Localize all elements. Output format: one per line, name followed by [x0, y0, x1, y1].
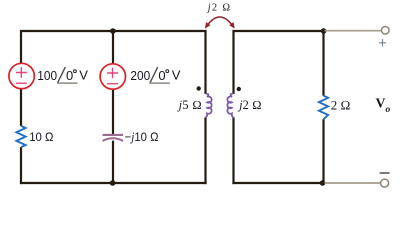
- inductor L1 (primary) coil: [206, 94, 212, 118]
- wire: primary coil bottom to bottom rail: [204, 117, 206, 184]
- svg-text:0: 0: [66, 68, 73, 83]
- svg-text:2 Ω: 2 Ω: [331, 98, 351, 113]
- voltage source V2 circle: [100, 64, 125, 89]
- node: coupling dot of L1: [197, 86, 201, 90]
- label: - polarity mark at output: [380, 172, 390, 174]
- label: V2 value 200/0° V: [130, 67, 180, 83]
- voltage source V1 minus sign: [16, 82, 27, 84]
- wire: secondary coil bottom to bottom rail: [232, 117, 234, 184]
- wire: secondary loop top rail (secondary coil top + top wire + right branch top): [234, 31, 324, 96]
- wire: middle branch top segment: [112, 30, 114, 64]
- resistor R2 zigzag: [319, 96, 328, 120]
- svg-text:j2 Ω: j2 Ω: [237, 98, 262, 112]
- wire: left loop top rail (left wire top + top wire + primary top segment): [21, 31, 206, 94]
- node: junction dot top of middle branch: [110, 28, 116, 34]
- wire: left wire between source V1 and resistor R1: [20, 89, 22, 126]
- arrowhead left of coupling arrow: [205, 22, 211, 29]
- wire: gray lead to + output terminal: [325, 30, 382, 32]
- node: junction dot bottom of resistor R2 branch: [320, 180, 326, 186]
- voltage source V1 plus sign: [16, 67, 27, 78]
- wire: gray lead to - output terminal: [325, 182, 381, 184]
- svg-text:j2 Ω: j2 Ω: [206, 3, 231, 14]
- capacitor C1 top plate: [103, 134, 123, 136]
- svg-text:200: 200: [130, 68, 150, 83]
- label: + polarity mark at output: [379, 39, 386, 46]
- svg-text:V: V: [79, 68, 88, 83]
- inductor L2 (secondary) coil: [227, 94, 233, 118]
- node: junction dot bottom of middle branch: [110, 180, 116, 186]
- wire: middle branch between source V2 and capacitor C1: [112, 89, 114, 135]
- capacitor C1 curved bottom plate: [103, 138, 123, 141]
- wire: right branch below resistor R2: [322, 119, 324, 184]
- wire: left wire below resistor R1: [20, 147, 22, 184]
- svg-text:10 Ω: 10 Ω: [29, 130, 54, 144]
- voltage source V2 minus sign: [107, 83, 118, 85]
- terminal: - output open circle: [381, 179, 389, 187]
- svg-text:j5 Ω: j5 Ω: [177, 98, 202, 112]
- svg-text:100: 100: [37, 68, 57, 83]
- voltage source V2 plus sign: [107, 68, 118, 79]
- svg-text:0: 0: [158, 68, 165, 83]
- terminal: + output open circle: [382, 27, 390, 35]
- node: coupling dot of L2: [237, 87, 241, 91]
- svg-text:−j10 Ω: −j10 Ω: [125, 130, 159, 144]
- wire: left loop bottom rail: [20, 182, 207, 184]
- resistor R1 zigzag: [16, 126, 25, 147]
- label: V1 value 100/0° V: [37, 67, 88, 83]
- voltage source V1 circle: [9, 63, 34, 88]
- node: junction dot top of resistor R2 branch: [321, 28, 327, 34]
- wire: middle branch below capacitor C1: [112, 141, 114, 185]
- svg-text:V: V: [172, 68, 181, 83]
- mutual inductance coupling arrow: [206, 17, 233, 27]
- wire: secondary loop bottom rail: [232, 182, 324, 184]
- arrowhead right of coupling arrow: [229, 22, 235, 29]
